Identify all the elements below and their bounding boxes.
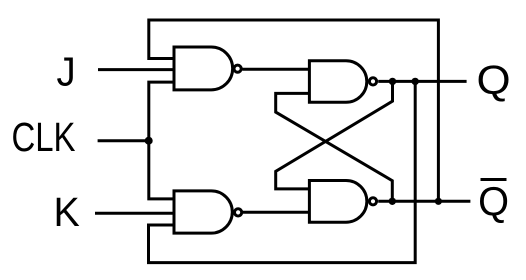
label CLK <box>11 113 75 159</box>
junction: Q net to cross-couple <box>389 78 396 85</box>
wire: J input to U1 middle input <box>98 68 174 71</box>
wire: Qbar feedback via top rail to U1 top input <box>149 20 439 201</box>
wire: K input to U2 middle input <box>95 212 174 215</box>
wire: CLK junction up to U1 bottom input <box>149 82 174 141</box>
label Q <box>477 58 511 103</box>
svg-text:Q: Q <box>478 178 509 225</box>
nand gate U3 (latch top) <box>309 61 376 103</box>
wire: CLK junction down to U2 top input <box>149 141 174 199</box>
label K <box>54 189 80 235</box>
wire: U3 output to Q terminal (Q net) <box>378 80 466 83</box>
junction: Qbar net to cross-couple <box>389 198 396 205</box>
wire: U4 output to Qbar terminal (Qbar net) <box>378 200 470 203</box>
junction: CLK node <box>145 137 153 145</box>
wire: Q feedback via bottom rail to U2 bottom input <box>149 81 416 262</box>
label Qbar <box>478 178 509 225</box>
nand gate U1 (3-input, J side) <box>174 47 241 90</box>
nand gate U2 (3-input, K side) <box>174 191 242 233</box>
svg-text:CLK: CLK <box>11 113 75 159</box>
svg-text:Q: Q <box>477 58 511 103</box>
svg-text:J: J <box>57 49 76 94</box>
wire: U1 output to U3 top input <box>242 68 309 71</box>
wire: cross-couple Qbar to U3 bottom input <box>276 93 393 201</box>
junction: Q net to feedback <box>412 78 419 85</box>
wire: cross-couple Q to U4 top input <box>276 81 393 188</box>
junction: Qbar net to feedback <box>435 198 442 205</box>
wire: U2 output to U4 bottom input <box>243 211 310 214</box>
svg-text:K: K <box>54 189 80 235</box>
label J <box>57 49 76 94</box>
nand gate U4 (latch bottom) <box>309 181 376 223</box>
wire: CLK input to CLK junction <box>98 139 149 142</box>
